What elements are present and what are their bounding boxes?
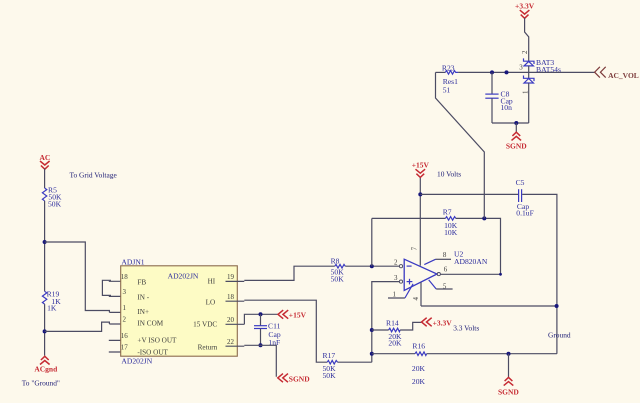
svg-text:3: 3: [394, 274, 398, 282]
svg-text:R17: R17: [323, 351, 336, 360]
svg-text:AD202JN: AD202JN: [121, 357, 152, 366]
wire C8 bottom rail: [492, 122, 529, 124]
pin 3 bubble: [399, 280, 402, 283]
wire to IN COM: [45, 322, 110, 331]
svg-text:R7: R7: [443, 208, 452, 217]
wire feedback up: [371, 218, 373, 266]
wire R23 rail: [458, 71, 594, 73]
pin 1 line: [109, 311, 133, 313]
pin 7 supply wire: [419, 177, 421, 266]
pin 19 HI: [208, 273, 245, 286]
svg-text:18: 18: [121, 273, 129, 281]
svg-text:7: 7: [410, 246, 418, 250]
wire FB to IN- jumper: [102, 280, 111, 295]
wire diode to C8 rail: [528, 83, 530, 123]
svg-text:3: 3: [122, 288, 126, 296]
pin 3 line: [109, 295, 134, 297]
svg-text:IN+: IN+: [137, 308, 149, 316]
svg-text:SGND: SGND: [289, 374, 310, 383]
svg-text:IN -: IN -: [137, 294, 149, 302]
svg-text:HI: HI: [208, 278, 216, 286]
svg-text:R16: R16: [412, 342, 425, 351]
power port +15V: [278, 310, 307, 319]
wire diode mid: [528, 66, 530, 78]
svg-text:51: 51: [443, 86, 451, 95]
svg-text:50K: 50K: [323, 371, 337, 380]
power port SGND mid: [506, 132, 527, 150]
svg-text:FB: FB: [137, 278, 146, 286]
node rail: [505, 70, 509, 74]
svg-text:+V ISO OUT: +V ISO OUT: [137, 337, 177, 345]
svg-text:6: 6: [444, 266, 448, 274]
svg-text:16: 16: [121, 332, 129, 340]
resistor R8: [331, 256, 346, 283]
capacitor C8: [485, 72, 513, 123]
svg-text:-ISO OUT: -ISO OUT: [137, 348, 168, 356]
svg-text:IN COM: IN COM: [137, 319, 163, 327]
node SGND top: [514, 121, 518, 125]
pin 4 supply wire: [420, 282, 422, 306]
svg-text:17: 17: [121, 344, 129, 352]
pin 1 IN+: [122, 304, 149, 316]
svg-text:18: 18: [227, 293, 235, 301]
svg-text:AC_VOL: AC_VOL: [608, 71, 639, 80]
power port SGND bottom: [498, 377, 519, 396]
wire Return to SGND: [244, 345, 276, 377]
svg-text:ADJN1: ADJN1: [121, 257, 144, 266]
svg-text:ACgnd: ACgnd: [34, 364, 58, 373]
pin 22 Return: [198, 338, 245, 351]
pin 2 bubble: [399, 265, 402, 268]
pin 2 line: [109, 323, 133, 325]
wire LO down to R17: [244, 300, 327, 362]
pin 18 FB: [121, 273, 147, 287]
svg-text:R14: R14: [386, 319, 399, 328]
node pin4 ground: [555, 304, 559, 308]
diode D BAT3 top: [524, 58, 561, 74]
svg-text:+15V: +15V: [412, 161, 430, 170]
svg-text:2: 2: [122, 316, 126, 324]
wire R7 right to output: [440, 218, 500, 274]
wire HI to R8: [244, 266, 334, 280]
wire R23 down diagonal: [436, 72, 485, 218]
svg-text:+15V: +15V: [289, 310, 307, 319]
svg-text:20K: 20K: [388, 338, 402, 347]
svg-text:C11: C11: [268, 321, 281, 330]
wire R16 to ground rail: [427, 353, 557, 355]
wire pin4 to ground rail: [421, 305, 557, 307]
resistor R19: [42, 290, 61, 313]
pin 18 line: [109, 280, 134, 282]
svg-text:Return: Return: [198, 343, 218, 351]
svg-text:2: 2: [394, 258, 398, 266]
svg-text:AD820AN: AD820AN: [454, 257, 488, 266]
power port +15V top: [412, 161, 430, 178]
resistor R17: [323, 351, 338, 380]
wire AC to R5: [44, 169, 46, 189]
svg-text:22: 22: [227, 338, 235, 346]
pin 3 wire: [372, 282, 400, 363]
svg-text:3: 3: [519, 63, 523, 71]
diode D BAT3 bottom: [524, 76, 535, 84]
capacitor C11: [254, 314, 281, 347]
port ACgnd: [34, 356, 58, 373]
port AC: [39, 153, 50, 169]
svg-text:To "Ground": To "Ground": [22, 378, 60, 387]
pin 17 -ISO OUT: [121, 344, 169, 357]
resistor R23: [436, 63, 459, 94]
svg-text:C5: C5: [516, 178, 525, 187]
pin 16 +V ISO OUT: [121, 332, 177, 344]
wire to IN+: [45, 242, 110, 312]
power port +3.3V top: [515, 2, 535, 19]
pin 18 LO: [206, 293, 245, 307]
power port +3.3V mid: [422, 318, 453, 328]
svg-text:20: 20: [227, 316, 235, 324]
node output corner: [499, 273, 502, 276]
svg-text:AD202JN: AD202JN: [168, 272, 199, 281]
resistor R14: [372, 319, 402, 348]
svg-text:2: 2: [521, 50, 529, 54]
op-amp U2 AD820AN: [404, 250, 488, 291]
svg-text:3.3 Volts: 3.3 Volts: [453, 323, 479, 332]
wire R5 to R19: [44, 201, 46, 291]
svg-text:1K: 1K: [47, 304, 57, 313]
wire SGND stub: [508, 354, 510, 378]
wire 15VDC pin to +15V port: [244, 314, 278, 324]
node C11 top: [259, 312, 263, 316]
resistor R16: [372, 342, 427, 387]
power port SGND: [278, 374, 310, 384]
wire C5 to ground vertical: [522, 194, 557, 353]
svg-text:SGND: SGND: [498, 388, 519, 397]
wire R17 to node: [338, 361, 372, 363]
node C8 top: [490, 70, 494, 74]
svg-text:4: 4: [412, 297, 420, 301]
svg-text:Ground: Ground: [548, 331, 571, 340]
node R16: [370, 352, 374, 356]
node divider top: [43, 240, 47, 244]
wire R14 to +3.3V port: [400, 322, 421, 330]
port AC_VOL: [595, 67, 639, 80]
svg-text:To Grid Voltage: To Grid Voltage: [70, 170, 118, 179]
svg-text:20K: 20K: [412, 377, 426, 386]
svg-text:10n: 10n: [501, 103, 513, 112]
pin 6 output bubble: [437, 273, 440, 276]
svg-text:1: 1: [521, 90, 529, 94]
svg-text:10 Volts: 10 Volts: [437, 170, 461, 179]
pin 8 stub: [424, 251, 451, 265]
pin 5 stub: [429, 280, 453, 291]
wire +3.3V to diode: [525, 18, 529, 61]
pin 2 IN COM: [122, 316, 163, 328]
svg-text:0.1uF: 0.1uF: [516, 208, 534, 217]
node SGND tap: [507, 352, 511, 356]
wire R19 to ACgnd: [44, 304, 46, 356]
isolation amp U ADJN1 AD202JN body: [121, 257, 238, 365]
node C11 bottom: [259, 343, 263, 347]
capacitor C5: [516, 178, 534, 217]
svg-text:19: 19: [227, 273, 235, 281]
svg-text:1: 1: [393, 290, 397, 298]
svg-text:10K: 10K: [444, 228, 458, 237]
node feedback junction: [370, 264, 374, 268]
svg-text:8: 8: [443, 251, 447, 259]
pin 17 line: [109, 351, 134, 353]
wire R8 to op-amp IN-: [345, 265, 399, 267]
resistor R5: [42, 186, 62, 209]
resistor R7: [443, 208, 458, 238]
svg-text:R23: R23: [442, 63, 455, 72]
svg-text:15 VDC: 15 VDC: [193, 321, 217, 329]
svg-text:50K: 50K: [331, 274, 345, 283]
wire SGND stub top: [515, 123, 517, 132]
svg-text:R8: R8: [331, 256, 340, 265]
svg-text:20K: 20K: [412, 364, 426, 373]
svg-text:+3.3V: +3.3V: [515, 2, 535, 11]
svg-text:SGND: SGND: [506, 141, 527, 150]
pin 16 line: [109, 339, 134, 341]
svg-text:1: 1: [122, 304, 126, 312]
node R23 tap: [482, 216, 486, 220]
node +15V rail: [418, 192, 422, 196]
wire R7 left: [372, 217, 446, 219]
svg-text:+3.3V: +3.3V: [433, 318, 453, 327]
node divider bottom: [43, 329, 47, 333]
svg-text:LO: LO: [206, 298, 216, 306]
wire +15V rail to C5: [420, 193, 518, 195]
pin 1 stub: [388, 284, 413, 299]
svg-text:5: 5: [443, 283, 447, 291]
svg-text:50K: 50K: [48, 199, 62, 208]
pin 3 IN-: [122, 288, 149, 302]
pin 20 15 VDC: [193, 316, 244, 328]
wire R14 from node: [370, 328, 374, 332]
